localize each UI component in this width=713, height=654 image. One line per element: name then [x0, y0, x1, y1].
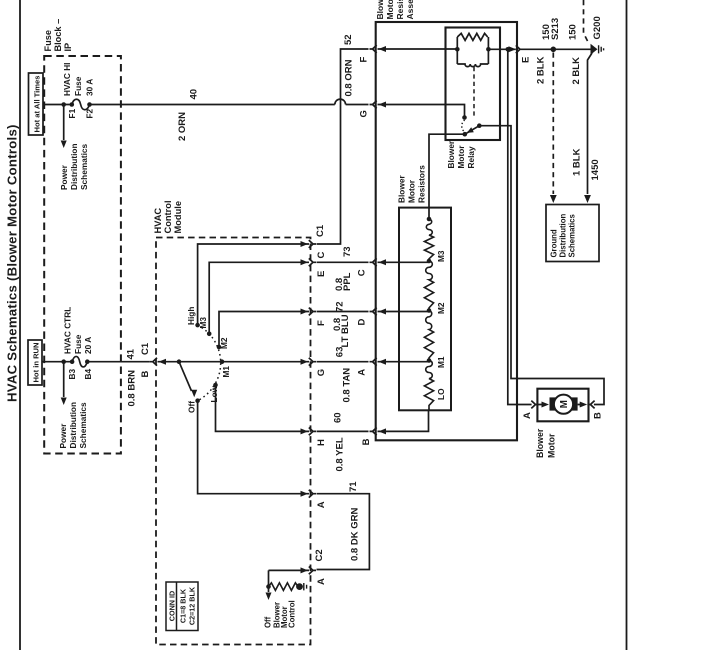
module pin E — [309, 258, 327, 277]
module pin A C2 — [309, 567, 327, 586]
svg-text:Resistors: Resistors — [416, 165, 426, 203]
blower motor outline — [537, 389, 588, 422]
svg-text:73: 73 — [342, 246, 353, 257]
svg-text:20 A: 20 A — [83, 337, 93, 354]
svg-text:LT BLU: LT BLU — [340, 314, 351, 347]
assembly pin C — [370, 258, 377, 266]
internal wire pin D to resistor tap M2 — [378, 309, 429, 315]
wire 0.8 BRN 41 from Hot in RUN through fuse B3/B4 to HVAC control module pin B — [42, 361, 150, 363]
svg-text:M: M — [559, 400, 570, 408]
wire Off contact to pin A — [198, 401, 309, 497]
wire 2 ORN 40 from Hot at All Times through fuse F1/F2 to blower resistors pin G — [43, 99, 369, 104]
svg-text:C2=12 BLK: C2=12 BLK — [188, 586, 197, 625]
svg-text:71: 71 — [348, 481, 359, 492]
svg-text:Relay: Relay — [466, 146, 476, 169]
assembly pin G — [359, 101, 377, 118]
relay contact dotted travel arc — [462, 120, 465, 132]
svg-text:M1: M1 — [221, 366, 231, 378]
label Blower Motor Relay — [446, 140, 476, 168]
relay movable arm — [463, 123, 482, 136]
svg-text:Hot at All Times: Hot at All Times — [32, 76, 41, 133]
wire 1 BLK 1450 from G200 to ground distribution schematics — [572, 53, 601, 203]
fuse HVAC CTRL 20 A (B3-B4) — [62, 307, 93, 380]
resistor LO — [424, 361, 445, 411]
junction at fuse B3 feed — [61, 359, 66, 364]
svg-text:Distribution: Distribution — [68, 402, 78, 449]
svg-text:F: F — [359, 57, 370, 63]
label Hot at All Times — [29, 73, 44, 135]
svg-text:B: B — [140, 371, 151, 378]
svg-text:E: E — [521, 57, 532, 63]
internal wire pin F to relay coil — [378, 46, 458, 52]
svg-text:M2: M2 — [436, 302, 446, 314]
splice S213 — [551, 47, 557, 53]
svg-text:Off: Off — [187, 401, 197, 413]
svg-text:Low: Low — [209, 385, 219, 402]
svg-text:B3: B3 — [67, 369, 77, 380]
blower motor pin B — [587, 401, 603, 419]
resistor M3 — [424, 219, 445, 263]
ground G200 — [591, 16, 604, 55]
switch contact M2 — [217, 337, 230, 349]
arrow to Power Distribution Schematics (top) — [59, 105, 89, 191]
module pin A C1 — [309, 490, 327, 508]
svg-text:Motor: Motor — [456, 145, 466, 169]
svg-text:0.8 BRN: 0.8 BRN — [127, 370, 138, 407]
svg-text:Fuse: Fuse — [73, 76, 83, 96]
blower motor resistors outline — [399, 208, 451, 411]
relay coil — [455, 33, 491, 66]
svg-text:0.8 YEL: 0.8 YEL — [334, 437, 345, 471]
dashed wire S213 to ground distribution schematics — [550, 53, 557, 204]
label HVAC Control Module — [153, 200, 183, 233]
wire relay arm to resistor chain top — [429, 134, 465, 219]
svg-text:A: A — [316, 501, 327, 508]
svg-text:B: B — [593, 412, 604, 419]
wire pin E ground riser to blower motor pin A — [506, 47, 532, 405]
svg-text:52: 52 — [343, 34, 354, 45]
label Fuse Block IP — [43, 19, 73, 52]
label Blower Motor Resistors — [396, 165, 426, 203]
dashed wire from top into G200 — [584, 0, 590, 44]
HVAC control module dashed outline — [156, 238, 311, 645]
svg-text:2 BLK: 2 BLK — [536, 56, 547, 84]
wire High contact to pin C — [198, 241, 309, 325]
svg-text:Blower: Blower — [396, 175, 406, 203]
fuse block IP dashed outline — [44, 56, 121, 454]
svg-text:G: G — [359, 110, 370, 117]
svg-text:Control: Control — [287, 600, 296, 628]
wire M3 contact to pin E — [209, 259, 309, 334]
svg-text:Ground: Ground — [549, 229, 558, 257]
svg-text:2 ORN: 2 ORN — [177, 112, 188, 141]
svg-text:0.8 TAN: 0.8 TAN — [342, 368, 353, 403]
wire M1 contact to pin G — [301, 359, 309, 365]
module connector C1 label — [315, 224, 326, 237]
internal wire pin A to resistor tap M1 — [378, 359, 429, 365]
svg-text:C1: C1 — [140, 342, 151, 355]
module pin B C1 — [140, 342, 157, 377]
svg-text:A: A — [522, 412, 533, 419]
wire 0.8 LT BLU 72 pin F to assembly pin D — [317, 301, 369, 347]
svg-text:Distribution: Distribution — [69, 143, 79, 190]
off blower motor control resistor inside module — [266, 567, 309, 590]
svg-text:PPL: PPL — [342, 272, 353, 291]
wire 0.8 TAN 63 pin G to assembly pin A — [317, 347, 369, 403]
module pin G — [309, 358, 327, 376]
svg-text:Block –: Block – — [53, 19, 63, 52]
page left border — [19, 0, 21, 650]
svg-text:IP: IP — [63, 43, 73, 52]
svg-text:Control: Control — [163, 200, 173, 233]
svg-text:H: H — [316, 439, 327, 446]
blower motor brushes — [550, 397, 578, 410]
switch contact Low — [209, 383, 219, 403]
motor internal wires — [538, 402, 587, 408]
wire 0.8 ORN 52 pin C to assembly pin F (riser hops 2 ORN) — [317, 34, 369, 244]
svg-text:0.8 ORN: 0.8 ORN — [343, 59, 354, 96]
wire M2 contact to pin F — [219, 309, 309, 348]
svg-text:Schematics: Schematics — [79, 143, 89, 190]
svg-text:HVAC HI: HVAC HI — [62, 63, 72, 97]
assembly pin E — [516, 45, 532, 63]
junction at fuse F1 feed — [61, 102, 66, 107]
svg-text:C: C — [357, 269, 368, 276]
resistor M2 — [424, 261, 445, 314]
svg-text:Off: Off — [264, 616, 273, 628]
svg-text:CONN ID: CONN ID — [167, 591, 176, 621]
svg-text:2 BLK: 2 BLK — [571, 57, 582, 85]
svg-text:Schematics: Schematics — [78, 402, 88, 449]
svg-text:C: C — [316, 252, 327, 259]
svg-text:Power: Power — [59, 164, 69, 190]
svg-text:Power: Power — [58, 423, 68, 449]
wire 2 BLK 150 pin E to splice S213 — [523, 18, 592, 84]
svg-text:M2: M2 — [219, 337, 229, 349]
svg-text:A: A — [316, 578, 327, 585]
svg-text:HVAC CTRL: HVAC CTRL — [62, 307, 72, 354]
fan switch wiper pivot junction — [177, 359, 182, 364]
internal wire pin C to resistor tap M3 — [378, 259, 429, 265]
switch contact M1 — [220, 359, 232, 377]
svg-text:B: B — [361, 438, 372, 445]
svg-text:B4: B4 — [83, 369, 93, 380]
fan switch feed wire from pin B with wiper pivot — [158, 359, 310, 365]
internal wire pin G to relay contact — [378, 102, 465, 117]
switch contact M3 — [198, 317, 211, 337]
wire 0.8 DK GRN 71 pin A C1 looping to pin A C2 — [317, 481, 370, 570]
svg-text:41: 41 — [126, 348, 137, 359]
svg-text:Schematics: Schematics — [567, 213, 576, 257]
svg-text:40: 40 — [189, 89, 200, 100]
assembly pin F — [359, 45, 377, 62]
label Blower Motor — [535, 428, 556, 458]
svg-text:60: 60 — [333, 412, 344, 423]
module connector C2 label — [314, 549, 325, 561]
svg-text:S213: S213 — [550, 18, 561, 40]
wire label 2 BLK 150 to ground — [568, 24, 583, 84]
svg-text:1 BLK: 1 BLK — [572, 148, 583, 176]
svg-text:30 A: 30 A — [84, 79, 94, 96]
wire through relay coil to pin E — [488, 46, 516, 52]
page title — [5, 124, 20, 402]
svg-text:F1: F1 — [67, 108, 77, 118]
fan switch dotted contact arc — [198, 325, 221, 401]
svg-text:F: F — [316, 320, 327, 326]
ground distribution schematics box — [546, 205, 599, 262]
svg-text:M1: M1 — [436, 356, 446, 368]
wire 0.8 YEL 60 pin H to assembly pin B — [317, 412, 373, 471]
svg-text:C1: C1 — [315, 224, 326, 237]
assembly pin B — [370, 428, 377, 436]
module pin F — [309, 308, 327, 326]
wire label 0.8 BRN 41 — [126, 348, 138, 406]
resistor chain top junction — [427, 217, 432, 222]
svg-text:D: D — [357, 319, 368, 326]
svg-text:HVAC Schematics (Blower Motor: HVAC Schematics (Blower Motor Controls) — [5, 124, 20, 402]
fuse HVAC HI 30 A (F1-F2) — [62, 63, 95, 119]
wire 0.8 PPL 73 pin E to assembly pin C — [317, 246, 369, 291]
wire relay output to blower motor pin B — [479, 126, 604, 405]
svg-text:Blower: Blower — [535, 428, 545, 458]
svg-text:Fuse: Fuse — [73, 334, 83, 354]
module pin C — [309, 240, 327, 258]
svg-text:C2: C2 — [314, 549, 325, 561]
resistor M1 — [424, 311, 445, 369]
arrow off control — [264, 587, 297, 628]
svg-text:High: High — [186, 307, 196, 325]
svg-text:Blower: Blower — [446, 140, 456, 168]
page right border — [626, 0, 628, 650]
svg-text:Hot in RUN: Hot in RUN — [31, 342, 40, 382]
svg-text:M3: M3 — [436, 250, 446, 262]
svg-text:0.8 DK GRN: 0.8 DK GRN — [350, 508, 361, 561]
relay coil dashed actuator link — [473, 67, 475, 117]
wire label 2 ORN 40 — [177, 89, 200, 141]
internal wire pin B to resistor chain bottom — [378, 410, 429, 434]
svg-text:Blower: Blower — [375, 0, 385, 20]
svg-text:Motor: Motor — [385, 0, 395, 20]
switch contact High — [186, 307, 200, 328]
svg-text:E: E — [316, 271, 327, 277]
svg-text:63: 63 — [335, 347, 346, 358]
svg-text:Distribution: Distribution — [558, 214, 567, 258]
svg-text:Module: Module — [173, 201, 183, 234]
arrow to Power Distribution Schematics (RUN) — [58, 362, 88, 449]
blower motor resistors assembly outline — [376, 22, 517, 440]
svg-text:1450: 1450 — [590, 159, 601, 180]
label Blower Motor Resistors Assembly — [375, 0, 415, 20]
relay contact fixed (from pin G) — [462, 115, 467, 120]
wire Low contact to pin H — [216, 385, 310, 434]
svg-text:Motor: Motor — [406, 179, 416, 203]
svg-text:LO: LO — [436, 388, 446, 400]
svg-text:G: G — [316, 369, 327, 376]
svg-text:Fuse: Fuse — [43, 30, 53, 51]
svg-text:Resistors: Resistors — [395, 0, 405, 20]
svg-text:Assembly: Assembly — [405, 0, 415, 20]
switch contact Off — [187, 398, 200, 413]
assembly pin D — [370, 308, 377, 316]
fan switch wiper arm pointing at Off — [179, 362, 197, 398]
svg-text:A: A — [357, 369, 368, 376]
motor armature M — [554, 395, 573, 414]
svg-text:C1=8 BLK: C1=8 BLK — [179, 588, 188, 623]
svg-text:M3: M3 — [198, 317, 208, 329]
module pin H — [309, 428, 327, 447]
svg-text:HVAC: HVAC — [153, 208, 163, 234]
svg-text:F2: F2 — [84, 108, 94, 118]
svg-text:Motor: Motor — [546, 433, 556, 458]
svg-text:72: 72 — [335, 301, 346, 312]
label Hot in RUN — [28, 340, 42, 385]
blower motor relay outline — [446, 28, 501, 141]
blower motor pin A — [522, 401, 538, 419]
svg-text:G200: G200 — [592, 16, 603, 39]
CONN ID table C1=8 BLK C2=12 BLK — [166, 582, 198, 631]
svg-text:150: 150 — [568, 24, 579, 40]
assembly pin A — [370, 358, 377, 366]
